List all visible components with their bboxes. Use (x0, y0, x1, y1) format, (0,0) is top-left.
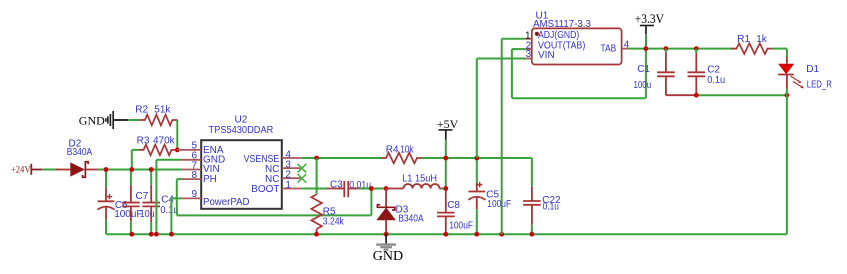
U2 pin 9 PowerPAD (182, 197, 202, 199)
capacitor C5 100uF (476, 158, 478, 186)
svg-text:PowerPAD: PowerPAD (203, 197, 250, 208)
capacitor C6 100uF (105, 170, 107, 188)
svg-text:C4: C4 (161, 194, 174, 205)
LED D1 LED_R (786, 57, 788, 64)
svg-text:LED_R: LED_R (807, 79, 832, 90)
svg-text:ADJ(GND): ADJ(GND) (538, 30, 579, 41)
wire VSENSE to R4 (302, 157, 382, 159)
svg-text:U2: U2 (235, 115, 248, 126)
diode D2 B340A (56, 169, 71, 171)
svg-text:+24V: +24V (11, 166, 31, 176)
wire U1 pin3 VIN to +5V line (477, 58, 526, 60)
node LED cathode junction dot (785, 93, 790, 98)
svg-text:3: 3 (526, 49, 532, 60)
resistor R5 3.24k (316, 158, 318, 194)
wire R4 to +5V node (422, 157, 446, 159)
svg-text:470k: 470k (153, 136, 176, 147)
diode D3 B340A (385, 189, 387, 208)
svg-text:0.1u: 0.1u (707, 75, 725, 86)
svg-text:R1: R1 (737, 34, 750, 45)
node L1 output junction dot (443, 186, 448, 191)
inductor L1 15uH (386, 188, 403, 190)
wire +5V riser through L1 node (445, 158, 447, 191)
U1 pin 3 VIN (526, 58, 532, 60)
svg-text:0.1u: 0.1u (160, 205, 178, 216)
svg-text:1k: 1k (756, 34, 768, 45)
wire U2 PH pin 8 loop under box (177, 178, 182, 180)
wire C3 to PH node (359, 188, 386, 190)
wire LED node down to ground rail (786, 95, 788, 234)
svg-text:GND: GND (79, 113, 105, 127)
wire R1 to LED (773, 48, 787, 50)
svg-text:PH: PH (203, 174, 217, 185)
U2 pin 5 ENA (177, 149, 201, 151)
wire U2 GND pin 6 to ground rail (156, 159, 181, 161)
capacitor C1 100u (665, 49, 667, 53)
svg-text:0.1u: 0.1u (543, 202, 559, 213)
capacitor C4 0.1u (150, 170, 152, 185)
svg-text:100uF: 100uF (114, 209, 142, 220)
svg-text:3.24k: 3.24k (323, 217, 345, 228)
U2 pin 1 BOOT (282, 188, 302, 190)
capacitor C3 0.01u (327, 188, 345, 190)
U2 pin 7 VIN (182, 169, 202, 171)
svg-text:D1: D1 (806, 64, 819, 75)
svg-text:TAB: TAB (601, 43, 617, 54)
node D3 junction dot (384, 186, 389, 191)
capacitor C22 0.1u (531, 158, 533, 186)
svg-text:1: 1 (285, 180, 291, 191)
svg-text:51k: 51k (154, 105, 171, 116)
svg-text:VIN: VIN (538, 50, 555, 61)
svg-text:AMS1117-3.3: AMS1117-3.3 (533, 19, 591, 30)
svg-text:C2: C2 (707, 65, 720, 76)
U2 pin 3 NC with no-connect X (282, 167, 302, 169)
svg-text:C7: C7 (136, 191, 149, 202)
wire R3 left corner to input rail (131, 150, 133, 169)
wire R2 right down to ENA node (176, 120, 178, 150)
svg-text:8: 8 (191, 170, 197, 181)
junction dots on +5V line (443, 156, 448, 161)
junction dots on input rail (104, 167, 109, 172)
svg-text:100uF: 100uF (449, 221, 473, 232)
svg-text:R3: R3 (137, 136, 150, 147)
svg-text:+3.3V: +3.3V (635, 12, 664, 26)
U2 pin 8 PH (182, 178, 202, 180)
wire +24V to D2 anode (42, 169, 57, 171)
resistor R2 51k (140, 115, 178, 126)
svg-text:R4: R4 (386, 144, 399, 155)
svg-text:B340A: B340A (398, 214, 424, 225)
capacitor C2 0.1u (695, 49, 697, 53)
wire U2 PowerPAD pin 9 to ground rail (171, 197, 181, 199)
wire BOOT to C3 (302, 188, 328, 190)
voltage regulator U1 AMS1117-3.3 box (532, 28, 622, 64)
capacitor C7 10u (130, 170, 132, 186)
junction dots on ground rail (129, 232, 134, 237)
resistor R1 1k (732, 43, 773, 54)
junction dot C2 bottom (694, 93, 699, 98)
ground rail wire (106, 233, 787, 235)
node PH riser junction dot (369, 186, 374, 191)
node ENA junction dot (175, 148, 180, 153)
ground symbol GND bottom (385, 234, 387, 243)
wire U1 pin2 VOUT loop to +3.3V node (512, 48, 526, 50)
capacitor C8 100uF (445, 190, 447, 213)
svg-text:100uF: 100uF (487, 199, 511, 210)
svg-text:R2: R2 (135, 105, 148, 116)
svg-text:C3: C3 (330, 180, 343, 191)
U2 pin 6 GND (182, 159, 202, 161)
svg-text:C8: C8 (447, 200, 460, 211)
U2 pin 2 NC with no-connect X (282, 177, 302, 179)
svg-text:GND: GND (373, 249, 403, 264)
resistor R3 470k (139, 145, 177, 156)
wire input rail to U2 VIN pin 7 (97, 169, 182, 171)
svg-text:100u: 100u (634, 80, 652, 91)
wire GND symbol to R2 (128, 119, 140, 121)
junction dots on +3.3V rail (644, 46, 649, 51)
wire +3.3V rail (629, 48, 734, 50)
op-amp U2 TPS5430DDAR box (201, 140, 282, 209)
svg-text:C1: C1 (637, 64, 650, 75)
resistor R4 10k (381, 153, 422, 164)
svg-text:B340A: B340A (67, 147, 93, 158)
U1 pin 2 VOUT(TAB) (526, 48, 532, 50)
node VSENSE junction dot (314, 156, 319, 161)
svg-text:9: 9 (191, 189, 197, 200)
wire U1 pin1 ADJ to ground rail (502, 38, 525, 40)
U2 pin 4 VSENSE (282, 157, 302, 159)
svg-text:10u: 10u (140, 209, 155, 220)
svg-text:TPS5430DDAR: TPS5430DDAR (209, 125, 274, 136)
svg-text:L1 15uH: L1 15uH (402, 173, 437, 184)
wire C1 C2 bottom return (666, 94, 696, 96)
svg-text:BOOT: BOOT (251, 184, 279, 195)
U1 pin 1 ADJ(GND) (525, 38, 532, 40)
svg-text:10k: 10k (400, 144, 414, 155)
U1 pin 4 TAB (622, 48, 629, 50)
